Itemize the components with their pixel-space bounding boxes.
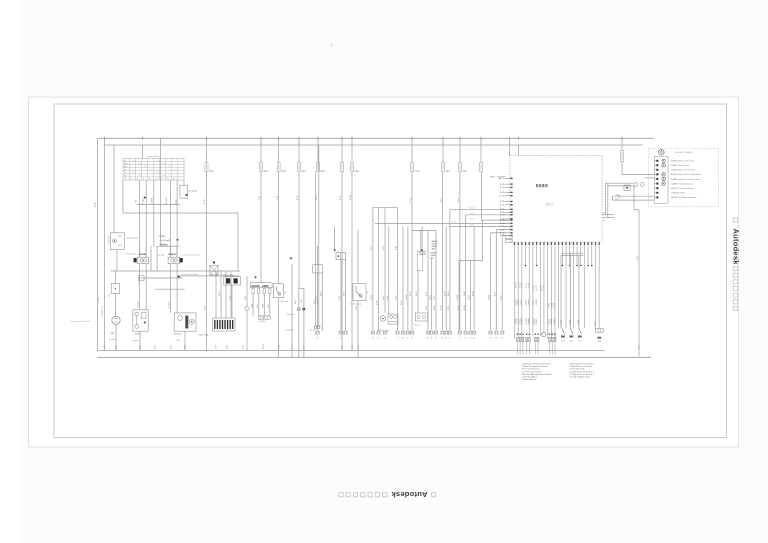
svg-text:B1: B1	[384, 338, 386, 340]
svg-text:1.25GB: 1.25GB	[561, 319, 563, 326]
svg-text:7 Speed Sensor: 7 Speed Sensor	[522, 378, 537, 381]
svg-text:F1: F1	[435, 338, 437, 340]
svg-text:Starter: Starter	[133, 339, 139, 342]
svg-text:B-6: B-6	[616, 198, 619, 200]
svg-text:0.5YL1: 0.5YL1	[526, 283, 528, 288]
svg-text:0.5GB2: 0.5GB2	[533, 285, 535, 291]
svg-text:0.5RG: 0.5RG	[469, 294, 471, 300]
svg-text:0.5YR: 0.5YR	[401, 300, 403, 305]
svg-text:0.5YG1: 0.5YG1	[521, 299, 523, 305]
svg-text:1.25GB: 1.25GB	[569, 319, 571, 326]
svg-text:B 1M: B 1M	[352, 344, 354, 349]
svg-text:0: 0	[125, 178, 126, 180]
svg-text:0.5YG1: 0.5YG1	[516, 282, 518, 288]
svg-text:B 17a: B 17a	[452, 222, 456, 224]
svg-text:0.75W: 0.75W	[464, 305, 466, 310]
svg-text:A 17b: A 17b	[500, 191, 505, 194]
svg-text:6: 6	[173, 178, 174, 180]
svg-text:0.5BR2: 0.5BR2	[518, 300, 520, 306]
svg-text:6×20GapM: 6×20GapM	[160, 239, 171, 242]
svg-text:E1: E1	[427, 338, 429, 340]
svg-text:6×30X: 6×30X	[160, 243, 167, 246]
svg-text:1.25GB: 1.25GB	[578, 319, 580, 326]
svg-text:0.5BR: 0.5BR	[464, 291, 466, 296]
svg-text:2x 41-4b: 2x 41-4b	[189, 190, 198, 192]
svg-text:0.5RB2: 0.5RB2	[516, 319, 518, 325]
svg-text:1 1M: 1 1M	[371, 246, 373, 250]
svg-text:STA: STA	[176, 339, 180, 342]
svg-text:A 1M: A 1M	[174, 199, 177, 204]
svg-text:H1: H1	[449, 338, 451, 340]
svg-text:Counter: Counter	[109, 338, 116, 341]
svg-text:0.5LW1: 0.5LW1	[554, 318, 556, 324]
svg-text:A 17b: A 17b	[500, 183, 505, 186]
svg-text:B 1M: B 1M	[95, 202, 97, 207]
svg-text:8 Memory Pressure Switch: 8 Memory Pressure Switch	[569, 363, 593, 366]
svg-text:8. TAB: 8. TAB	[97, 297, 100, 303]
svg-text:0.5LW1: 0.5LW1	[526, 318, 528, 324]
svg-text:4 Oil Pressure Switch: 4 Oil Pressure Switch	[522, 370, 542, 373]
svg-text:0.5BR2: 0.5BR2	[549, 303, 551, 309]
svg-text:0.5GB2: 0.5GB2	[521, 318, 523, 324]
svg-text:Monitor: Monitor	[175, 333, 182, 336]
svg-text:2: 2	[161, 178, 162, 180]
svg-text:5: 5	[155, 178, 156, 180]
svg-text:A 17b: A 17b	[500, 200, 505, 203]
svg-text:2(4B4) Starter Whine: 2(4B4) Starter Whine	[671, 164, 691, 167]
svg-text:0.5Lg: 0.5Lg	[387, 296, 389, 300]
svg-text:4A(LB) Fuel Water Separator: 4A(LB) Fuel Water Separator	[671, 196, 697, 199]
svg-text:0.5BW: 0.5BW	[489, 295, 491, 300]
svg-text:A 17b: A 17b	[500, 234, 505, 237]
svg-text:4(5A8) Hydraulic Oil Temperat: 4(5A8) Hydraulic Oil Temperature	[671, 178, 702, 181]
svg-text:36(B1) Pre-heat Indicator: 36(B1) Pre-heat Indicator	[671, 187, 694, 190]
svg-text:B 2M: B 2M	[245, 295, 247, 300]
svg-text:B 1M: B 1M	[396, 245, 398, 250]
svg-text:0.5LW: 0.5LW	[430, 295, 432, 300]
svg-text:7.5A: 7.5A	[414, 169, 420, 173]
svg-text:A 17a: A 17a	[470, 217, 474, 220]
svg-text:GL02: GL02	[263, 304, 265, 308]
svg-text:13 Torque Motor Valve: 13 Torque Motor Valve	[569, 375, 590, 378]
svg-text:1.25A: 1.25A	[349, 195, 352, 200]
svg-text:0.5YL1: 0.5YL1	[518, 319, 520, 325]
svg-text:10A: 10A	[263, 169, 268, 173]
svg-text:0.5YG1: 0.5YG1	[544, 285, 546, 291]
svg-text:A(3B4) Starter Water Temperat: A(3B4) Starter Water Temperature	[671, 173, 702, 176]
svg-text:Solenoid Valve Relay: Solenoid Valve Relay	[182, 274, 199, 276]
svg-text:10A: 10A	[462, 169, 467, 173]
svg-text:17(2B) Air Filter: 17(2B) Air Filter	[671, 192, 685, 195]
svg-text:0.5BR2: 0.5BR2	[529, 319, 531, 325]
svg-text:5(6A8) Fuel Temperature: 5(6A8) Fuel Temperature	[671, 182, 694, 185]
svg-text:0.5RL2: 0.5RL2	[526, 300, 528, 306]
svg-text:1.25G: 1.25G	[595, 321, 597, 326]
svg-text:0.5GL: 0.5GL	[448, 291, 450, 296]
svg-text:0.5RL2: 0.5RL2	[554, 303, 556, 309]
svg-text:Clarifier Lamp: Clarifier Lamp	[350, 304, 361, 306]
svg-text:B-REXU: B-REXU	[169, 254, 177, 256]
svg-text:Garten Relay: Garten Relay	[127, 237, 139, 240]
svg-text:12 High Pressure Sensor 2: 12 High Pressure Sensor 2	[569, 373, 594, 376]
svg-text:1.25a: 1.25a	[441, 199, 443, 204]
svg-text:AB 17: AB 17	[491, 176, 496, 179]
svg-text:AGOO: AGOO	[251, 284, 260, 288]
svg-text:9: 9	[167, 178, 168, 180]
svg-text:B 1M: B 1M	[104, 344, 106, 349]
svg-text:A 17b: A 17b	[500, 222, 505, 225]
svg-text:4: 4	[137, 178, 138, 180]
svg-text:0.85L: 0.85L	[356, 306, 358, 310]
svg-text:0.5YL1: 0.5YL1	[548, 319, 550, 325]
svg-text:10A: 10A	[209, 169, 214, 173]
svg-text:GL01: GL01	[251, 304, 253, 308]
svg-text:B 2M: B 2M	[205, 305, 207, 310]
svg-text:0.5LW1: 0.5LW1	[515, 299, 517, 305]
svg-text:B 1M: B 1M	[155, 344, 157, 349]
svg-text:10A: 10A	[445, 169, 450, 173]
svg-text:1 1M: 1 1M	[135, 199, 137, 204]
svg-text:A0563: A0563	[432, 240, 437, 243]
svg-text:2L 4SM: 2L 4SM	[166, 197, 168, 204]
svg-text:Rear light: Rear light	[287, 313, 295, 316]
svg-text:0.5WL: 0.5WL	[472, 291, 474, 296]
svg-text:0.5GB2: 0.5GB2	[551, 318, 553, 324]
svg-text:Autodesk: Autodesk	[732, 229, 741, 266]
svg-text:0.5RL2: 0.5RL2	[536, 319, 538, 325]
svg-text:0.75L: 0.75L	[426, 292, 428, 296]
svg-text:Ground the Front North: Ground the Front North	[71, 320, 91, 323]
svg-text:Flasher: Flasher	[310, 330, 316, 332]
svg-text:0.75L: 0.75L	[448, 306, 450, 310]
svg-text:10 Throttle Knob: 10 Throttle Knob	[569, 368, 585, 371]
svg-text:10A: 10A	[281, 169, 286, 173]
svg-text:G 2M: G 2M	[227, 344, 229, 349]
svg-text:1.1M: 1.1M	[259, 196, 261, 200]
svg-text:SVR: SVR	[135, 334, 140, 336]
svg-text:11 High Pressure Sensor 1: 11 High Pressure Sensor 1	[569, 370, 594, 373]
svg-text:B 1M: B 1M	[185, 344, 187, 349]
svg-text:0.5RB2: 0.5RB2	[528, 300, 530, 306]
svg-text:0.75R: 0.75R	[396, 295, 398, 300]
svg-text:A050: A050	[262, 284, 269, 288]
svg-text:0.5YG1: 0.5YG1	[551, 303, 553, 309]
svg-text:G1: G1	[441, 338, 443, 340]
svg-text:3 Fuel Level Sensor: 3 Fuel Level Sensor	[522, 368, 541, 371]
svg-text:0.5WG: 0.5WG	[457, 294, 459, 300]
svg-text:4 17b: 4 17b	[470, 213, 474, 215]
svg-text:0.5YG1: 0.5YG1	[533, 318, 535, 324]
svg-text:0.75G: 0.75G	[410, 291, 412, 296]
svg-text:B5 1M: B5 1M	[263, 344, 265, 349]
svg-text:B 2M: B 2M	[340, 195, 342, 200]
svg-text:B 1M: B 1M	[619, 193, 621, 198]
svg-text:B 1.5R: B 1.5R	[138, 301, 140, 307]
svg-text:Cab Lamp: Cab Lamp	[280, 301, 289, 303]
svg-text:Yellow Relay: Yellow Relay	[126, 254, 136, 256]
svg-text:AB 17a: AB 17a	[499, 177, 506, 180]
svg-text:7: 7	[131, 178, 132, 180]
svg-text:C1: C1	[396, 338, 398, 340]
svg-text:0.5YL1: 0.5YL1	[533, 300, 535, 306]
svg-text:0.5GW: 0.5GW	[406, 294, 408, 300]
svg-text:5 Air filter Blockage Alarm Sw: 5 Air filter Blockage Alarm Switch	[522, 373, 552, 376]
svg-text:(3B 4B) +D(YB5B): (3B 4B) +D(YB5B)	[675, 152, 692, 154]
svg-text:Fuse: Fuse	[160, 235, 166, 238]
svg-text:8: 8	[149, 178, 150, 180]
svg-text:SW: SW	[124, 163, 127, 165]
svg-text:A 17b: A 17b	[500, 228, 505, 231]
svg-text:D1: D1	[411, 338, 413, 340]
svg-text:Preheat Relay: Preheat Relay	[223, 273, 234, 276]
svg-text:0.5RL2: 0.5RL2	[518, 282, 520, 288]
svg-text:20A: 20A	[301, 169, 306, 173]
svg-text:9(4B1) Engine Oil Pressure: 9(4B1) Engine Oil Pressure	[671, 170, 696, 172]
svg-text:J1: J1	[459, 338, 461, 340]
svg-text:0.5GB2: 0.5GB2	[536, 299, 538, 305]
svg-text:TurnOn/off Valve Relay: TurnOn/off Valve Relay	[181, 254, 200, 256]
svg-text:B 1M: B 1M	[204, 199, 206, 204]
svg-text:B 1.5R: B 1.5R	[169, 302, 171, 308]
svg-text:K1: K1	[465, 338, 467, 340]
svg-text:9 Signal Pressure Switch: 9 Signal Pressure Switch	[569, 365, 592, 368]
svg-text:0.5LW1: 0.5LW1	[536, 285, 538, 291]
svg-text:4 17b: 4 17b	[470, 225, 474, 227]
svg-text:A 17a: A 17a	[470, 207, 474, 210]
svg-text:25A: 25A	[354, 169, 359, 173]
svg-text:A05: A05	[432, 248, 435, 251]
svg-text:B 1M: B 1M	[243, 344, 245, 349]
svg-text:(LT)GN(s): (LT)GN(s)	[259, 321, 267, 323]
svg-text:0.5GB2: 0.5GB2	[529, 282, 531, 288]
svg-text:0.5BR2: 0.5BR2	[541, 285, 543, 291]
svg-text:B 5M: B 5M	[316, 195, 318, 200]
svg-text:6 Oil Drain Alarm: 6 Oil Drain Alarm	[522, 375, 538, 378]
svg-text:B 17g: B 17g	[410, 198, 412, 203]
svg-text:20A: 20A	[320, 169, 325, 173]
svg-text:1 Hydraulic Temperature Sensor: 1 Hydraulic Temperature Sensor	[522, 363, 552, 366]
svg-text:0.75W: 0.75W	[371, 295, 373, 300]
svg-text:Rear/light: Rear/light	[286, 329, 294, 332]
svg-text:1 1M: 1 1M	[277, 196, 279, 200]
svg-text:1.25a: 1.25a	[458, 199, 460, 204]
svg-text:Glow Plug: Glow Plug	[199, 335, 209, 337]
svg-text:2 Water Temperature Sensor: 2 Water Temperature Sensor	[522, 365, 548, 368]
svg-text:0.85R: 0.85R	[316, 295, 318, 300]
svg-text:G 2M: G 2M	[216, 344, 218, 349]
svg-text:Autodesk: Autodesk	[391, 490, 428, 499]
svg-text:STARTER: STARTER	[107, 235, 110, 244]
svg-text:1.25R: 1.25R	[230, 295, 232, 300]
svg-text:A-6: A-6	[616, 193, 619, 196]
svg-text:Resistor: Resistor	[414, 324, 421, 327]
svg-text:ECU: ECU	[546, 203, 553, 207]
svg-text:B 1AM: B 1AM	[142, 198, 145, 204]
svg-text:B 1M: B 1M	[297, 195, 299, 200]
svg-text:Option Switch: Option Switch	[147, 155, 161, 158]
svg-text:2(4B2) Hydraulic Pressure: 2(4B2) Hydraulic Pressure	[671, 161, 695, 163]
svg-text:B 1M: B 1M	[358, 344, 360, 349]
svg-text:0.75G: 0.75G	[441, 305, 443, 310]
svg-text:PORMATIC TR: PORMATIC TR	[101, 305, 104, 318]
svg-text:B 1M: B 1M	[342, 344, 344, 349]
svg-text:0.5RB2: 0.5RB2	[521, 282, 523, 288]
svg-text:B 2M: B 2M	[116, 344, 118, 349]
svg-text:1: 1	[143, 178, 144, 180]
svg-text:A1 1B1: A1 1B1	[158, 254, 164, 257]
svg-text:B 1M: B 1M	[278, 344, 280, 349]
svg-text:2L 4SG: 2L 4SG	[152, 197, 154, 204]
svg-text:0.5W: 0.5W	[339, 296, 341, 300]
